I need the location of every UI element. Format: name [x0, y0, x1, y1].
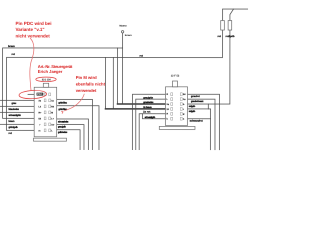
wire grau/rot X2 row1 right	[187, 94, 219, 150]
svg-text:blau/weiss: blau/weiss	[8, 108, 19, 111]
annotation red text Pin M	[76, 75, 106, 93]
svg-text:PDC: PDC	[37, 93, 42, 96]
svg-text:r: r	[183, 108, 184, 111]
wire schwarz/rot row5 right	[187, 118, 210, 120]
svg-text:ebenfalls nicht: ebenfalls nicht	[76, 81, 106, 86]
svg-text:grün/gelb: grün/gelb	[8, 126, 18, 129]
wire braun left loop	[3, 48, 123, 118]
svg-text:rot: rot	[218, 35, 221, 38]
svg-text:grau/weiss: grau/weiss	[143, 101, 154, 104]
svg-text:nicht verwendet: nicht verwendet	[16, 33, 51, 38]
annotation red ellipse around PDC	[19, 90, 47, 100]
wire rot/gelb row4 to bottom	[209, 109, 211, 150]
wire gelb/weiss row7 out	[57, 130, 80, 150]
svg-text:Masse: Masse	[119, 24, 127, 27]
svg-text:12 F 52: 12 F 52	[171, 75, 180, 78]
svg-text:gelb/weiss: gelb/weiss	[58, 131, 68, 134]
wire braun branch 2	[116, 48, 118, 102]
wire schwarz/gelb from bottom to X2	[139, 114, 165, 150]
svg-text:Erich Jaeger: Erich Jaeger	[38, 69, 63, 74]
svg-text:schwarz/weiss: schwarz/weiss	[58, 121, 69, 124]
connector X2 pin texts	[166, 93, 186, 121]
svg-text:grau/grün: grau/grün	[143, 96, 153, 99]
svg-text:verwendet: verwendet	[76, 88, 97, 93]
svg-text:rot: rot	[140, 54, 143, 57]
svg-text:schwarz/rot: schwarz/rot	[190, 120, 203, 123]
wire blau/weiss to X1	[0, 105, 34, 107]
wire labels X1 right side	[58, 101, 69, 133]
annotation red text Art-Nr	[38, 64, 73, 74]
connector X1 pin texts	[38, 99, 54, 132]
annotation red leader from Pin PDC text to PDC ellipse	[30, 38, 34, 90]
connector X1 body	[33, 83, 66, 141]
connector X1 base	[33, 138, 66, 141]
svg-text:schwarz/gelb: schwarz/gelb	[145, 116, 156, 119]
wire 30 supply top right	[223, 9, 249, 21]
svg-text:rot/gelb: rot/gelb	[226, 35, 235, 38]
svg-text:Pin PDC wird bei: Pin PDC wird bei	[16, 21, 52, 26]
svg-text:m: m	[38, 129, 40, 132]
wire rot/gelb from fuse F2 down to connector X2 row3	[187, 30, 229, 104]
svg-text:braun: braun	[125, 34, 132, 37]
wire 2x rot branch down to X2	[112, 57, 114, 106]
wire jumper schwarz/gelb rows5-6	[142, 114, 165, 119]
wire labels left side	[8, 35, 235, 135]
connector X2 pins	[171, 93, 182, 120]
wire grau/weiss from bottom to X2	[136, 99, 166, 150]
svg-text:2x rot: 2x rot	[143, 111, 150, 114]
connector X1 tab	[43, 83, 48, 87]
svg-text:2x braun: 2x braun	[143, 106, 152, 109]
wire schwarz/gruen to X1	[0, 111, 34, 113]
svg-text:grün/blau: grün/blau	[58, 101, 67, 104]
svg-text:rot/gelb: rot/gelb	[189, 105, 196, 108]
wire PDC stub	[28, 93, 34, 95]
svg-text:grau/rot: grau/rot	[191, 95, 200, 98]
fuse F1	[221, 21, 225, 31]
annotation red ellipse around 321 130	[36, 77, 56, 82]
svg-text:rot: rot	[12, 53, 15, 56]
connector X1 pins	[44, 93, 50, 132]
wire rot branch 2	[104, 57, 106, 106]
connector X1 PDC label	[37, 93, 44, 96]
svg-text:Pin M wird: Pin M wird	[76, 75, 97, 80]
wire grau/gelb row6 out	[57, 125, 84, 150]
wire grau/gruen from bottom to X2	[132, 94, 165, 150]
wire grau to X1	[0, 99, 34, 101]
wire gruen/blau row3 out	[57, 106, 99, 150]
wire rot from fuse F1 down and long loop left	[6, 30, 222, 131]
wire gruen/blau row2 out	[57, 99, 93, 150]
wire gruen/gelb to X1	[0, 123, 34, 125]
svg-text:grau: grau	[11, 102, 16, 105]
svg-text:braun: braun	[8, 45, 15, 48]
svg-text:rot: rot	[8, 132, 12, 135]
fuse F2	[228, 21, 232, 31]
svg-text:321 130: 321 130	[42, 78, 52, 81]
connector X2 tab	[172, 81, 177, 87]
svg-text:r: r	[39, 123, 40, 126]
svg-text:braun: braun	[8, 120, 15, 123]
svg-text:1w: 1w	[51, 123, 54, 126]
svg-text:grau/schwarz: grau/schwarz	[191, 100, 204, 103]
wire braun from Masse loop left to connector X1	[122, 33, 124, 102]
svg-text:M: M	[51, 111, 53, 114]
svg-text:grau/gelb: grau/gelb	[58, 126, 67, 129]
wire labels X2 right side	[189, 95, 205, 123]
wire branch to fuse F2	[230, 9, 234, 21]
wire grau/schwarz X2 row2 right	[187, 99, 215, 150]
wire rot/gelb jumper rows3-4	[187, 104, 208, 109]
svg-text:rot/gelb: rot/gelb	[189, 110, 196, 113]
connector X2 base	[159, 126, 195, 129]
svg-text:Variante "v.1": Variante "v.1"	[16, 27, 45, 32]
ground Masse terminal	[121, 31, 123, 33]
wire schwarz/weiss row5 out	[57, 119, 89, 150]
wire labels X2 left side	[143, 96, 155, 119]
annotation red leader to question mark	[64, 94, 84, 111]
svg-text:?: ?	[61, 110, 64, 115]
svg-text:schwarz/grün: schwarz/grün	[8, 114, 21, 117]
annotation red text Pin PDC	[16, 21, 52, 39]
connector X2 body	[159, 81, 195, 129]
